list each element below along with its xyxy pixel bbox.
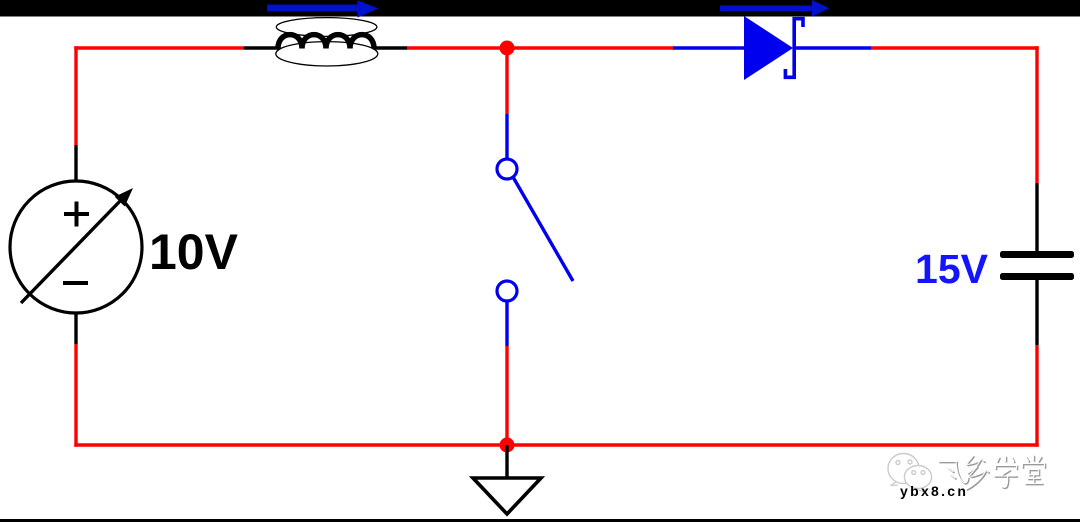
top letterbox bar: [0, 0, 1080, 17]
voltage source V1: [10, 145, 142, 344]
wire right vertical red lower: [1035, 345, 1038, 447]
wire bottom red horizontal: [74, 443, 1038, 446]
watermark text feiduoxuetang: [939, 456, 1046, 491]
wire red top middle: [407, 46, 674, 49]
bottom letterbox bar: [0, 519, 1080, 522]
wire right vertical red upper: [1035, 46, 1038, 183]
wire red switch bottom: [505, 346, 508, 445]
wire red switch top: [505, 48, 508, 114]
inductor L1: [244, 18, 407, 66]
current arrow over inductor: [267, 0, 379, 17]
svg-text:15V: 15V: [915, 246, 989, 292]
svg-text:ybx8.cn: ybx8.cn: [900, 483, 968, 499]
svg-text:10V: 10V: [149, 224, 239, 280]
wire top-left red horizontal: [74, 46, 244, 49]
wire red top right: [871, 46, 1039, 49]
switch S1: [497, 114, 573, 346]
wire left vertical red upper: [74, 46, 77, 145]
ground: [473, 445, 541, 514]
diode D1 (Schottky): [673, 16, 871, 80]
current arrow over diode: [720, 0, 830, 17]
node B (bottom junction): [500, 438, 515, 453]
wire left vertical red lower: [74, 344, 77, 447]
watermark wechat icon: [888, 454, 932, 493]
capacitor C1: [1000, 183, 1074, 345]
node A (top junction): [500, 41, 515, 56]
